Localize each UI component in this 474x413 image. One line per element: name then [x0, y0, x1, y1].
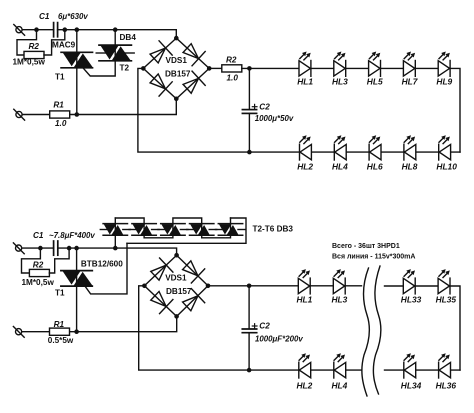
- svg-text:HL9: HL9: [436, 77, 452, 87]
- diode bridge2 bottom-right: [180, 289, 205, 314]
- wire diac bottom jog 4-5: [202, 218, 231, 238]
- node T1 top dot: [75, 27, 80, 32]
- capacitor C1 bottom circuit: [54, 241, 58, 255]
- svg-text:Всего - 36шт 3HPD1: Всего - 36шт 3HPD1: [332, 243, 400, 250]
- diode bridge2 bottom-left: [148, 289, 173, 314]
- wire T1 gate to T2: [83, 61, 115, 76]
- wire R2 to LED string and right edge: [242, 68, 460, 152]
- diode bridge2 top-right: [180, 258, 205, 283]
- wire break squiggle right: [373, 266, 381, 394]
- node bridge2 left: [142, 284, 147, 289]
- capacitor C1: [54, 23, 58, 37]
- node bridge top: [174, 36, 179, 41]
- label C2 plus sign: [252, 104, 257, 109]
- svg-text:~7.8μF*400v: ~7.8μF*400v: [49, 231, 95, 240]
- node bridge2 right: [206, 284, 211, 289]
- svg-text:C1: C1: [39, 12, 50, 21]
- svg-text:T1: T1: [55, 289, 65, 298]
- LED HL2: [300, 135, 312, 160]
- terminal input 2 bottom: [13, 327, 24, 338]
- svg-text:Вся линия - 115v*300mA: Вся линия - 115v*300mA: [332, 253, 415, 260]
- svg-text:HL10: HL10: [436, 161, 457, 171]
- LED HL1 bottom circuit: [298, 269, 310, 294]
- svg-text:HL4: HL4: [332, 380, 348, 390]
- node R2 return dot 2: [67, 246, 72, 251]
- wire bottom rail right of break: [385, 369, 461, 371]
- svg-text:T1: T1: [55, 73, 65, 82]
- triac T1: [61, 51, 93, 71]
- diode bridge top-left: [148, 41, 173, 66]
- LED HL33 bottom circuit: [403, 269, 415, 294]
- diac T2 of chain: [100, 223, 130, 236]
- wire C1 to bridge top corner 2: [58, 248, 177, 255]
- svg-text:C2: C2: [259, 322, 270, 331]
- svg-text:HL1: HL1: [297, 295, 313, 305]
- LED HL34 bottom circuit: [404, 353, 416, 378]
- wire LED string right of break and right edge: [385, 286, 461, 370]
- LED HL3 bottom circuit: [333, 269, 345, 294]
- bridge rectifier VDS1 diamond: [143, 38, 209, 99]
- svg-text:C2: C2: [259, 103, 270, 112]
- svg-text:1M*0,5w: 1M*0,5w: [13, 58, 46, 67]
- wire T1 gate to diac chain: [85, 243, 127, 294]
- svg-text:HL3: HL3: [332, 295, 348, 305]
- wire top input to C1: [22, 29, 53, 31]
- svg-text:HL36: HL36: [436, 380, 457, 390]
- svg-text:HL2: HL2: [297, 161, 313, 171]
- diac T2: [96, 43, 134, 63]
- svg-text:HL2: HL2: [297, 380, 313, 390]
- wire break squiggle left: [362, 268, 370, 396]
- svg-text:HL7: HL7: [402, 77, 418, 87]
- node R2 return dot: [63, 27, 68, 32]
- svg-text:1.0: 1.0: [55, 119, 67, 128]
- svg-text:VDS1: VDS1: [165, 274, 187, 283]
- wire diac chain input lead: [114, 218, 116, 248]
- terminal input 2 top: [13, 243, 24, 254]
- wire diac chain return line: [127, 218, 246, 243]
- node bridge2 bottom: [174, 314, 179, 319]
- node bridge bottom: [174, 97, 179, 102]
- LED HL36 bottom circuit: [439, 353, 451, 378]
- node T1 bottom dot: [75, 112, 80, 117]
- triac T1 bottom circuit: [61, 269, 93, 289]
- svg-text:HL35: HL35: [436, 295, 457, 305]
- svg-text:HL6: HL6: [367, 161, 383, 171]
- wire R2 left leg 2: [22, 248, 41, 273]
- wire bridge2 left to bottom rail: [139, 286, 362, 370]
- LED HL4: [334, 135, 346, 160]
- svg-text:1000μ*50v: 1000μ*50v: [255, 114, 294, 123]
- resistor R2: [24, 51, 44, 58]
- LED HL4 bottom circuit: [334, 353, 346, 378]
- wire bridge2 right to LED string: [208, 285, 362, 287]
- svg-text:HL5: HL5: [367, 77, 383, 87]
- node diac chain input dot: [113, 246, 118, 251]
- resistor R2 output: [222, 65, 242, 72]
- diac T5 of chain: [187, 223, 217, 236]
- diac T6 of chain: [216, 223, 246, 236]
- diac T3 of chain: [129, 223, 159, 236]
- svg-text:DB157: DB157: [165, 70, 191, 79]
- node A junction dot input: [34, 27, 39, 32]
- node input junction dot 2: [38, 246, 43, 251]
- wire C2 bottom lead 2: [248, 333, 250, 370]
- label C2 plus sign 2: [252, 324, 257, 329]
- svg-text:1000μF*200v: 1000μF*200v: [255, 334, 303, 343]
- svg-text:HL1: HL1: [297, 77, 313, 87]
- svg-text:R1: R1: [53, 101, 64, 110]
- wire terminal 2 to R1: [22, 114, 49, 116]
- svg-text:6μ*630v: 6μ*630v: [58, 12, 88, 21]
- wire diac bottom jog 2-3: [144, 229, 173, 238]
- svg-text:DB157: DB157: [166, 287, 192, 296]
- svg-text:MAC9: MAC9: [52, 41, 76, 50]
- svg-text:R2: R2: [29, 42, 40, 51]
- wire C2 top lead: [248, 68, 250, 109]
- wire diac top jog 3-4: [173, 218, 202, 229]
- wire bridge left to bottom rail: [138, 68, 460, 152]
- bridge rectifier VDS1 diamond 2: [144, 255, 208, 316]
- LED HL10: [439, 135, 451, 160]
- svg-text:R1: R1: [54, 320, 65, 329]
- node T1 bottom dot 2: [74, 329, 79, 334]
- wire R2 left leg: [17, 30, 37, 55]
- wire C2 bottom lead: [248, 113, 250, 152]
- LED HL6: [369, 135, 381, 160]
- node C2 top dot 2: [247, 284, 252, 289]
- wire T1 anode vertical: [76, 30, 78, 115]
- svg-text:HL33: HL33: [401, 295, 422, 305]
- wire bridge right to R2: [209, 67, 222, 69]
- LED HL7: [403, 52, 415, 77]
- resistor R1: [50, 111, 70, 118]
- wire bottom circuit input to C1: [22, 247, 54, 249]
- LED HL9: [438, 52, 450, 77]
- wire T1 anode vertical 2: [76, 248, 78, 332]
- svg-text:DB4: DB4: [120, 33, 137, 42]
- wire diac top jog 1-2: [115, 218, 144, 229]
- svg-text:HL4: HL4: [332, 161, 348, 171]
- node T2 top dot: [113, 27, 118, 32]
- svg-text:BTB12/600: BTB12/600: [81, 259, 123, 268]
- wire T2 top lead: [114, 30, 116, 45]
- node bridge left: [141, 66, 146, 71]
- LED HL8: [404, 135, 416, 160]
- svg-text:1M*0,5w: 1M*0,5w: [22, 278, 55, 287]
- svg-text:C1: C1: [33, 231, 44, 240]
- diode bridge2 top-left: [148, 258, 173, 283]
- svg-text:VDS1: VDS1: [166, 56, 188, 65]
- wire R1 to bridge bottom corner: [70, 99, 177, 115]
- node C2 bottom dot 2: [247, 368, 252, 373]
- svg-text:T2-T6 DB3: T2-T6 DB3: [253, 225, 294, 234]
- svg-text:1.0: 1.0: [227, 74, 239, 83]
- wire C1 to bridge top corner: [58, 30, 177, 38]
- capacitor C2: [242, 110, 256, 114]
- resistor R2 bottom: [29, 269, 49, 276]
- svg-text:R2: R2: [226, 56, 237, 65]
- terminal input bottom: [14, 109, 25, 120]
- LED HL5: [369, 52, 381, 77]
- diode bridge bottom-left: [148, 71, 173, 96]
- LED HL35 bottom circuit: [438, 269, 450, 294]
- LED HL1: [299, 52, 311, 77]
- wire terminal to R1 bottom circuit: [22, 331, 50, 333]
- svg-text:HL34: HL34: [401, 380, 422, 390]
- LED HL2 bottom circuit: [299, 353, 311, 378]
- diode bridge top-right: [181, 41, 206, 66]
- node C2 bottom dot: [247, 150, 252, 155]
- resistor R1 bottom: [50, 328, 70, 335]
- node C2 top dot: [247, 66, 252, 71]
- LED HL3: [334, 52, 346, 77]
- svg-text:HL3: HL3: [332, 77, 348, 87]
- svg-text:0.5*5w: 0.5*5w: [48, 336, 74, 345]
- diac T4 of chain: [158, 223, 188, 236]
- wire R2 right leg 2: [49, 248, 69, 273]
- node bridge right: [207, 66, 212, 71]
- node bridge2 top: [174, 253, 179, 258]
- wire R2 right leg: [44, 30, 65, 55]
- wire C2 top lead 2: [248, 286, 250, 329]
- diode bridge bottom-right: [181, 71, 206, 96]
- terminal input top: [14, 25, 25, 36]
- node T1 top dot 2: [74, 246, 79, 251]
- svg-text:HL8: HL8: [402, 161, 418, 171]
- capacitor C2 bottom circuit: [242, 329, 256, 333]
- svg-text:T2: T2: [120, 63, 130, 72]
- wire R1 to bridge bottom corner 2: [70, 316, 177, 331]
- svg-text:R2: R2: [33, 260, 44, 269]
